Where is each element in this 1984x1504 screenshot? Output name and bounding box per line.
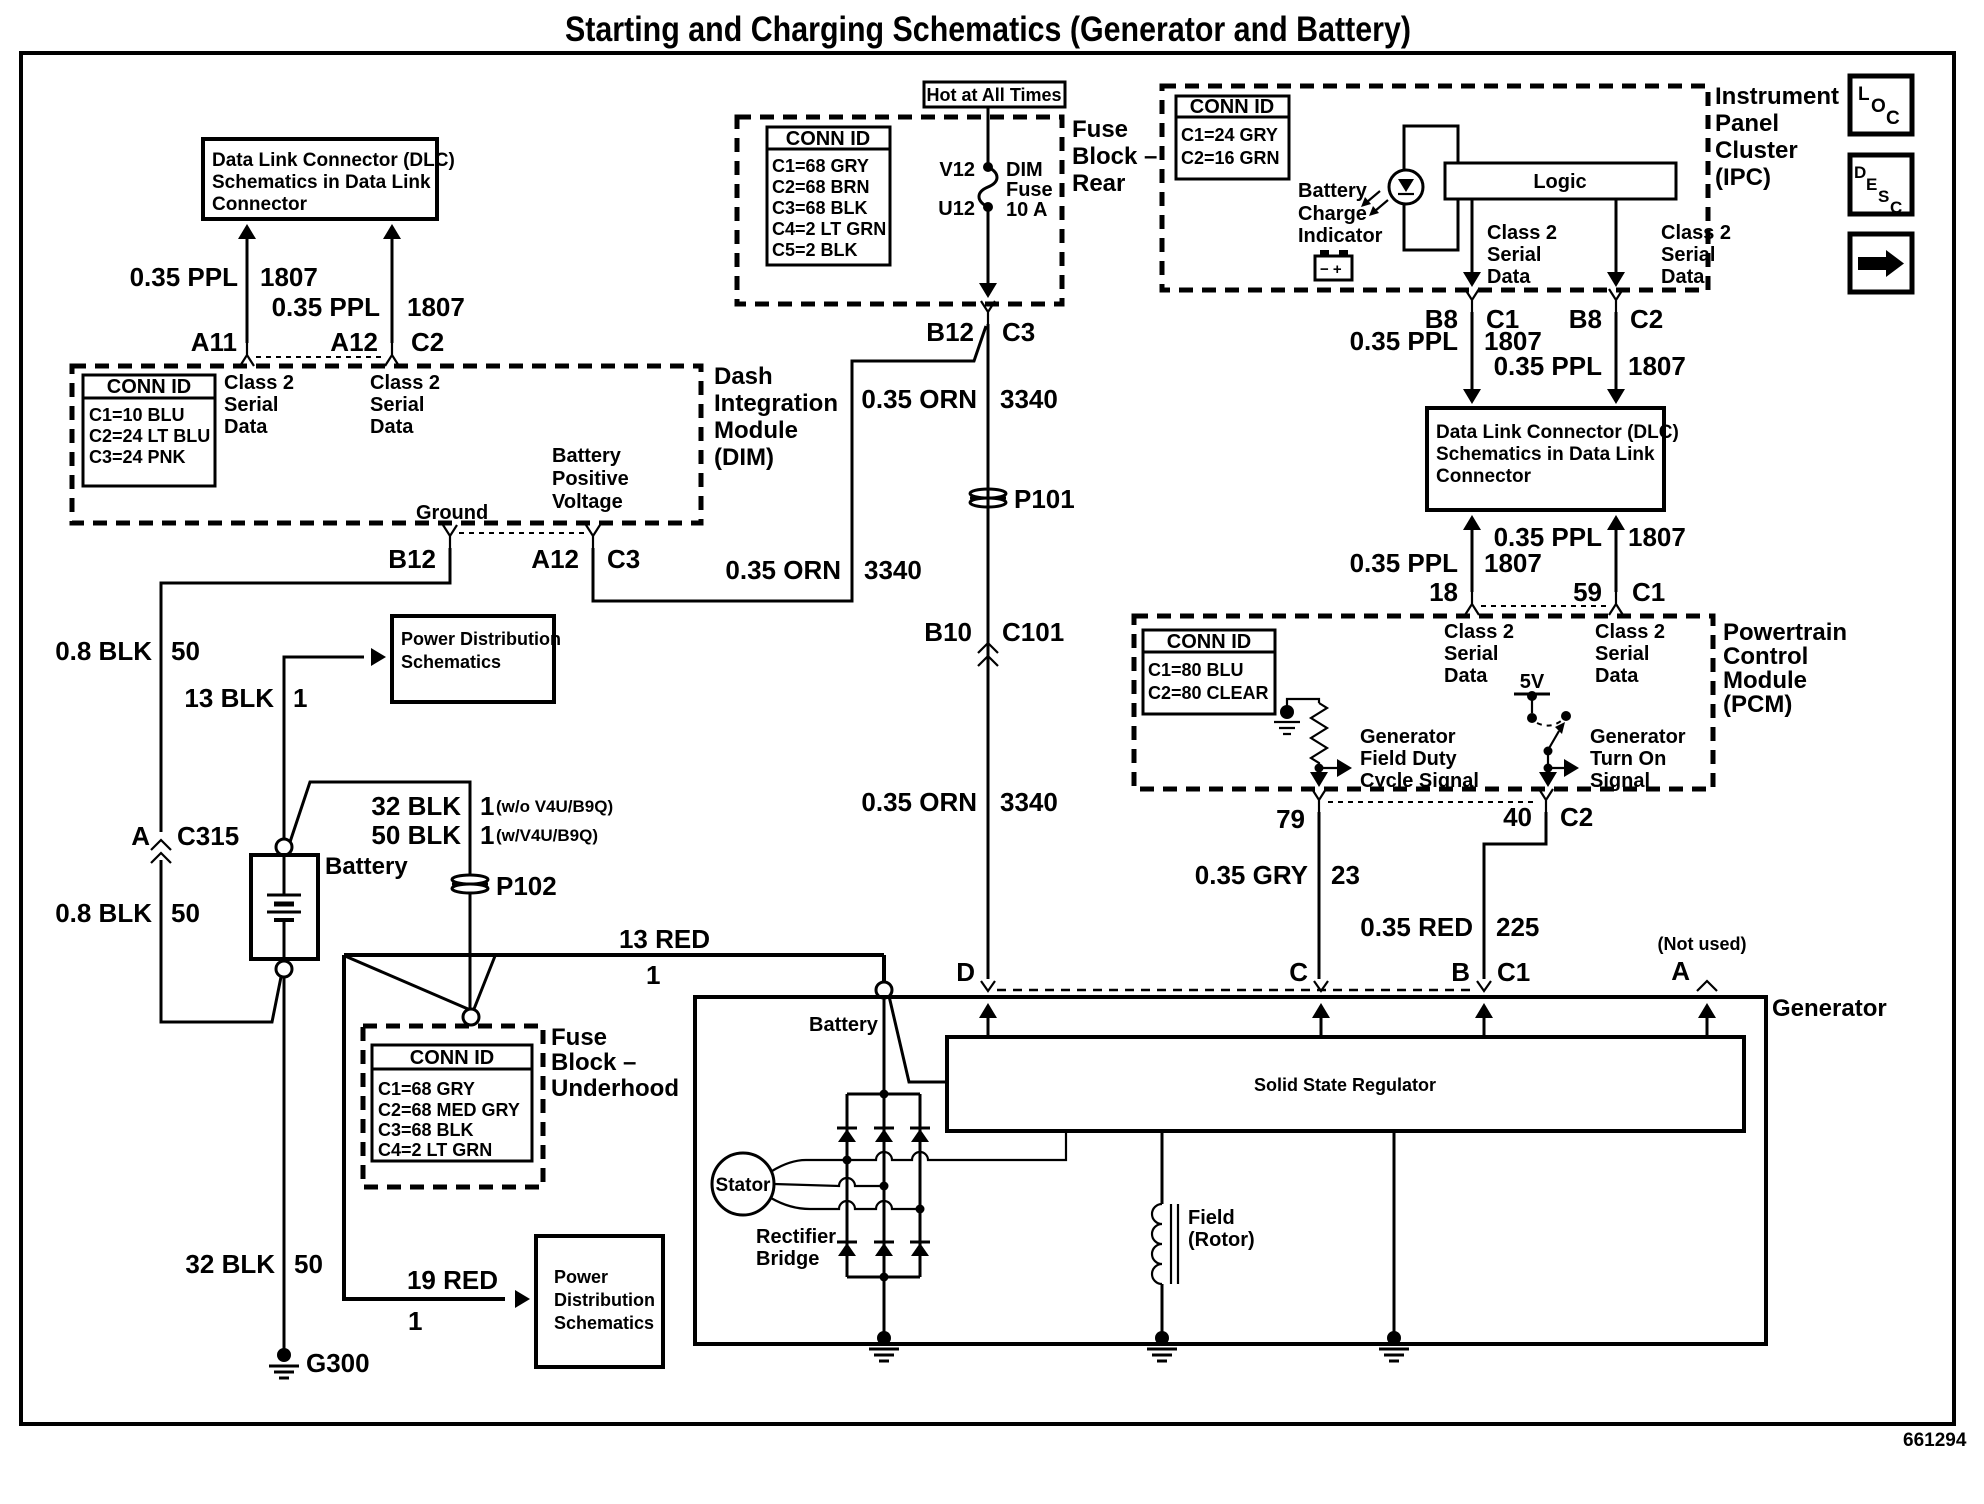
svg-text:E: E [1866,175,1877,194]
CONN ID box (PCM) [1143,630,1275,714]
svg-text:Fuse: Fuse [1072,116,1128,143]
CONN ID box (fuse block rear) [767,127,890,265]
ground G300 [269,1348,299,1378]
svg-text:Integration: Integration [714,390,838,417]
pin-pair dashed line [1481,605,1607,607]
svg-text:Data: Data [224,416,268,438]
svg-text:1807: 1807 [1628,522,1686,552]
svg-text:Solid State Regulator: Solid State Regulator [1254,1075,1436,1095]
arrow up into DLC [238,224,256,239]
svg-text:CONN ID: CONN ID [1167,631,1251,653]
wire from Hot at All Times to fuse [987,107,990,167]
svg-text:C4=2 LT GRN: C4=2 LT GRN [378,1140,492,1160]
svg-text:13 BLK: 13 BLK [184,683,274,713]
svg-text:C1: C1 [1632,577,1665,607]
svg-text:Data: Data [1595,665,1639,687]
svg-text:Rear: Rear [1072,170,1125,197]
box: Data Link Connector (DLC) Schematics [203,139,437,219]
svg-text:C: C [1289,957,1308,987]
svg-text:Bridge: Bridge [756,1248,819,1270]
svg-text:C1=68 GRY: C1=68 GRY [378,1079,475,1099]
svg-text:Data: Data [370,416,414,438]
5V switch (gen turn-on) [1514,671,1579,787]
stator phase wire 3 [771,1198,920,1209]
field rotor wire from regulator [1161,1131,1164,1204]
dashed box: Fuse Block Rear [737,117,1062,304]
battery charge icon [1315,250,1352,280]
svg-text:C2=16 GRN: C2=16 GRN [1181,148,1280,168]
svg-text:50 BLK: 50 BLK [371,820,461,850]
battery stud junction on generator [876,982,892,998]
svg-text:Stator: Stator [716,1175,772,1196]
svg-text:Data: Data [1661,266,1705,288]
svg-text:C1=24 GRY: C1=24 GRY [1181,125,1278,145]
svg-text:0.35 ORN: 0.35 ORN [861,384,977,414]
wire down to generator D [987,873,990,979]
svg-text:(DIM): (DIM) [714,444,774,471]
box: Hot at All Times [924,82,1065,107]
pin B8/C2 [1609,289,1623,312]
pin B12/C3 [981,301,995,324]
connector B10/C101 [978,643,998,653]
svg-text:CONN ID: CONN ID [107,376,191,398]
wire P102 down to fuse block stud [469,894,472,1008]
LED indicator [1361,170,1423,216]
svg-text:A12: A12 [330,327,378,357]
svg-text:Panel: Panel [1715,110,1779,137]
svg-text:C1=10 BLU: C1=10 BLU [89,405,185,425]
pin 40/C2 [1539,789,1553,812]
pin B8/C1 [1465,289,1479,312]
svg-text:Cycle Signal: Cycle Signal [1360,770,1479,792]
svg-text:P102: P102 [496,871,557,901]
pin 18 [1465,592,1479,615]
svg-text:Rectifier: Rectifier [756,1226,836,1248]
svg-text:Starting and Charging Schemati: Starting and Charging Schematics (Genera… [565,10,1411,49]
ground (field) [1147,1331,1177,1361]
main vertical wire to P101 [987,324,990,873]
svg-text:C2: C2 [1630,304,1663,334]
svg-text:A: A [1671,956,1690,986]
LED loop [1404,126,1458,250]
generator box [695,997,1766,1344]
svg-text:Block –: Block – [551,1049,636,1076]
logic drop wires [1472,199,1616,280]
pin-pair dashed line [256,356,383,358]
svg-text:50: 50 [171,898,200,928]
terminal C [1314,981,1328,991]
svg-text:Hot at All Times: Hot at All Times [926,85,1061,105]
wire B12 ground run [161,548,450,832]
svg-text:Distribution: Distribution [554,1290,655,1310]
svg-text:Data Link Connector (DLC): Data Link Connector (DLC) [1436,422,1679,443]
svg-text:C5=2 BLK: C5=2 BLK [772,240,858,260]
svg-text:− +: − + [1320,261,1342,278]
battery [251,839,318,977]
diodes top row [837,1128,857,1142]
svg-text:Power: Power [554,1267,608,1287]
wire battery negative to G300 [283,977,286,1352]
svg-text:Field Duty: Field Duty [1360,748,1458,770]
svg-text:Dash: Dash [714,363,773,390]
svg-text:P101: P101 [1014,484,1075,514]
rectifier rails [847,1094,920,1277]
wire rectifier bottom to ground [883,1277,886,1338]
pin A12/C2 [385,343,399,366]
svg-text:Turn On: Turn On [1590,748,1666,770]
svg-text:Block –: Block – [1072,143,1157,170]
svg-text:1807: 1807 [1628,351,1686,381]
svg-text:D: D [1854,163,1866,182]
diodes bottom row [837,1242,857,1256]
svg-text:0.35 RED: 0.35 RED [1360,912,1473,942]
svg-text:(Not used): (Not used) [1658,934,1747,954]
arrows into regulator: D [979,1003,997,1018]
svg-text:0.35 PPL: 0.35 PPL [1494,351,1603,381]
svg-text:C1=68 GRY: C1=68 GRY [772,156,869,176]
stud junction circle [463,1009,479,1025]
svg-text:D: D [956,957,975,987]
pin A12/C3 (DIM bottom) [586,525,600,548]
DESC icon box [1850,155,1912,217]
svg-text:Field: Field [1188,1207,1235,1229]
svg-text:O: O [1871,96,1886,117]
pin-pair dashed line [1328,801,1537,803]
svg-text:661294: 661294 [1903,1430,1967,1451]
svg-text:Serial: Serial [1595,643,1649,665]
svg-text:V12: V12 [939,159,975,181]
arrow into lower Power Distribution box [515,1290,530,1308]
svg-text:G300: G300 [306,1348,370,1378]
svg-text:Serial: Serial [224,394,278,416]
svg-text:B: B [1451,957,1470,987]
svg-text:C101: C101 [1002,617,1064,647]
svg-text:(w/o V4U/B9Q): (w/o V4U/B9Q) [496,797,613,816]
svg-text:Data: Data [1487,266,1531,288]
svg-text:C: C [1886,108,1900,129]
svg-text:1807: 1807 [407,292,465,322]
svg-text:1: 1 [293,683,307,713]
svg-text:C4=2 LT GRN: C4=2 LT GRN [772,219,886,239]
wire below C315 [161,860,281,1022]
svg-text:Connector: Connector [1436,466,1532,487]
svg-text:Class 2: Class 2 [1487,222,1557,244]
svg-text:19 RED: 19 RED [407,1265,498,1295]
svg-text:C3=68 BLK: C3=68 BLK [772,198,868,218]
svg-text:Logic: Logic [1533,171,1586,193]
svg-text:Generator: Generator [1590,726,1686,748]
svg-text:Battery: Battery [325,853,408,880]
ground (rectifier) [869,1331,899,1361]
svg-text:18: 18 [1429,577,1458,607]
svg-text:32 BLK: 32 BLK [371,791,461,821]
svg-text:Class 2: Class 2 [1444,621,1514,643]
svg-text:Cluster: Cluster [1715,137,1798,164]
svg-text:Schematics in Data Link: Schematics in Data Link [212,172,431,193]
Fuse Block Underhood dashed box [363,1026,543,1187]
svg-text:Signal: Signal [1590,770,1650,792]
svg-text:C1=80 BLU: C1=80 BLU [1148,660,1244,680]
svg-text:Schematics: Schematics [554,1313,654,1333]
wire 79 to generator C [1318,812,1321,979]
svg-text:0.35 PPL: 0.35 PPL [1350,548,1459,578]
svg-text:Underhood: Underhood [551,1075,679,1102]
grommet P102 [452,875,488,893]
svg-text:Charge: Charge [1298,203,1367,225]
box: Power Distribution Schematics (upper) [392,616,554,702]
svg-text:Schematics: Schematics [401,652,501,672]
svg-text:Powertrain: Powertrain [1723,619,1847,646]
svg-text:Module: Module [1723,667,1807,694]
pin 79 [1312,789,1326,812]
svg-text:40: 40 [1503,802,1532,832]
svg-text:U12: U12 [938,198,975,220]
svg-text:0.35 PPL: 0.35 PPL [1350,326,1459,356]
svg-text:B8: B8 [1569,304,1602,334]
svg-text:13 RED: 13 RED [619,924,710,954]
svg-text:Class 2: Class 2 [1595,621,1665,643]
grommet P101 [970,489,1006,507]
svg-text:0.35 ORN: 0.35 ORN [861,787,977,817]
svg-text:23: 23 [1331,860,1360,890]
terminal D [981,981,995,991]
svg-text:(IPC): (IPC) [1715,164,1771,191]
svg-text:Schematics in Data Link: Schematics in Data Link [1436,444,1655,465]
svg-text:C3=24 PNK: C3=24 PNK [89,447,186,467]
wire coil to ground [1161,1284,1164,1338]
svg-text:Instrument: Instrument [1715,83,1839,110]
CONN ID box (underhood) [372,1045,532,1161]
svg-text:225: 225 [1496,912,1539,942]
svg-text:B12: B12 [926,317,974,347]
svg-text:Battery: Battery [1298,180,1368,202]
svg-text:CONN ID: CONN ID [410,1047,494,1069]
svg-text:Serial: Serial [1444,643,1498,665]
svg-text:1: 1 [480,820,494,850]
svg-text:59: 59 [1573,577,1602,607]
svg-text:Ground: Ground [416,502,488,524]
svg-text:1807: 1807 [1484,548,1542,578]
box: Power Distribution Schematics (lower) [536,1236,663,1367]
svg-text:1: 1 [480,791,494,821]
svg-text:C2: C2 [411,327,444,357]
wire PCM 59/C1 up to DLC [1615,522,1618,592]
svg-text:Fuse: Fuse [1006,179,1053,201]
svg-text:C2=68 BRN: C2=68 BRN [772,177,870,197]
svg-text:1807: 1807 [260,262,318,292]
svg-text:Fuse: Fuse [551,1024,607,1051]
svg-text:50: 50 [171,636,200,666]
svg-text:A12: A12 [531,544,579,574]
svg-text:S: S [1878,187,1889,206]
wire B8/C2 down to DLC [1615,312,1618,398]
svg-text:Connector: Connector [212,194,308,215]
svg-text:1: 1 [646,960,660,990]
wire A11 to DLC [246,230,249,343]
terminal B [1477,981,1491,991]
svg-text:3340: 3340 [1000,787,1058,817]
wire junction to regulator left [889,996,946,1082]
stator phase wire 1 [772,1133,1066,1171]
Solid State Regulator box [947,1037,1744,1131]
svg-text:Power Distribution: Power Distribution [401,629,561,649]
stator phase wire 2 [774,1178,884,1186]
svg-text:0.35 GRY: 0.35 GRY [1195,860,1308,890]
pin-pair dashed line [459,532,584,534]
svg-text:C3=68 BLK: C3=68 BLK [378,1120,474,1140]
svg-text:Data: Data [1444,665,1488,687]
arrow into Power Distribution Schematics [371,648,386,666]
svg-text:L: L [1858,84,1870,105]
svg-text:C2=24 LT BLU: C2=24 LT BLU [89,426,210,446]
svg-text:Class 2: Class 2 [224,372,294,394]
svg-text:Class 2: Class 2 [370,372,440,394]
svg-text:(Rotor): (Rotor) [1188,1229,1255,1251]
arrow B [1475,1003,1493,1018]
svg-text:Control: Control [1723,643,1808,670]
svg-text:Generator: Generator [1360,726,1456,748]
branch to DIM A12/C3 [593,326,986,601]
battery feed wire to Power Distribution [284,657,364,839]
svg-text:Battery: Battery [809,1014,879,1036]
svg-text:32 BLK: 32 BLK [185,1249,275,1279]
svg-text:0.35 PPL: 0.35 PPL [272,292,381,322]
arrow down at box edge [979,283,997,298]
svg-text:0.35 ORN: 0.35 ORN [725,555,841,585]
svg-text:3340: 3340 [1000,384,1058,414]
svg-text:A: A [131,821,150,851]
arrow A [1698,1003,1716,1018]
wire A12/C2 to DLC [391,230,394,343]
CONN ID box (IPC) [1176,96,1289,179]
wire junction down to rectifier [883,998,886,1094]
svg-text:Class 2: Class 2 [1661,222,1731,244]
19 RED wire down and right [344,955,505,1299]
arrow up into DLC [383,224,401,239]
svg-text:C2=68 MED GRY: C2=68 MED GRY [378,1100,520,1120]
DIM fuse 10A [983,162,993,172]
svg-text:0.35 PPL: 0.35 PPL [130,262,239,292]
pin A11 [240,343,254,366]
svg-text:10 A: 10 A [1006,199,1048,221]
connector C315 [151,840,171,850]
wire fuse down to box edge [987,207,990,288]
svg-text:Serial: Serial [1661,244,1715,266]
svg-text:C1: C1 [1497,957,1530,987]
svg-text:C3: C3 [607,544,640,574]
svg-text:C2: C2 [1560,802,1593,832]
svg-text:Voltage: Voltage [552,491,623,513]
V feed wires [345,956,495,1009]
rectifier branches [847,1094,920,1277]
ground + resistor (field duty driver) [1274,699,1352,787]
field (rotor) coil [1152,1204,1162,1284]
svg-text:C2=80 CLEAR: C2=80 CLEAR [1148,683,1269,703]
svg-text:A11: A11 [191,327,237,357]
LOC icon box [1850,76,1912,134]
svg-text:CONN ID: CONN ID [1190,96,1274,118]
wire B8/C1 down to DLC [1471,312,1474,398]
svg-text:5V: 5V [1520,671,1545,693]
terminal dashed line [997,989,1475,992]
CONN ID box (DIM) [83,375,215,486]
13 RED horizontal wire [344,955,884,982]
svg-text:Positive: Positive [552,468,629,490]
svg-text:0.8 BLK: 0.8 BLK [55,898,152,928]
svg-text:Data Link Connector (DLC): Data Link Connector (DLC) [212,150,455,171]
arrow icon box [1850,234,1912,292]
svg-text:B10: B10 [924,617,972,647]
ground (regulator) [1379,1331,1409,1361]
terminal A (not used) [1697,981,1717,991]
box: Data Link Connector (DLC) Schematics (right) [1427,408,1664,510]
svg-text:Battery: Battery [552,445,622,467]
pin 59/C1 [1609,592,1623,615]
svg-text:Generator: Generator [1772,995,1887,1022]
stator [712,1153,774,1215]
svg-text:3340: 3340 [864,555,922,585]
svg-text:C: C [1890,198,1902,217]
wire 40/C2 to generator B [1484,812,1546,979]
svg-text:Module: Module [714,417,798,444]
svg-text:DIM: DIM [1006,159,1043,181]
svg-text:C315: C315 [177,821,239,851]
svg-text:CONN ID: CONN ID [786,128,870,150]
wire regulator to ground 3 [1393,1131,1396,1338]
pin B12 (DIM bottom) [443,525,457,548]
svg-text:Indicator: Indicator [1298,225,1383,247]
svg-text:1: 1 [408,1306,422,1336]
svg-text:0.8 BLK: 0.8 BLK [55,636,152,666]
svg-text:79: 79 [1276,804,1305,834]
wire PCM 18 up to DLC [1471,522,1474,592]
battery positive diagonal to 32 BLK wire [290,782,470,874]
svg-text:50: 50 [294,1249,323,1279]
svg-text:(w/V4U/B9Q): (w/V4U/B9Q) [496,826,598,845]
arrow C [1312,1003,1330,1018]
svg-text:Serial: Serial [370,394,424,416]
svg-text:Serial: Serial [1487,244,1541,266]
Logic box [1445,163,1676,199]
svg-text:(PCM): (PCM) [1723,691,1792,718]
svg-text:C3: C3 [1002,317,1035,347]
svg-text:B12: B12 [388,544,436,574]
